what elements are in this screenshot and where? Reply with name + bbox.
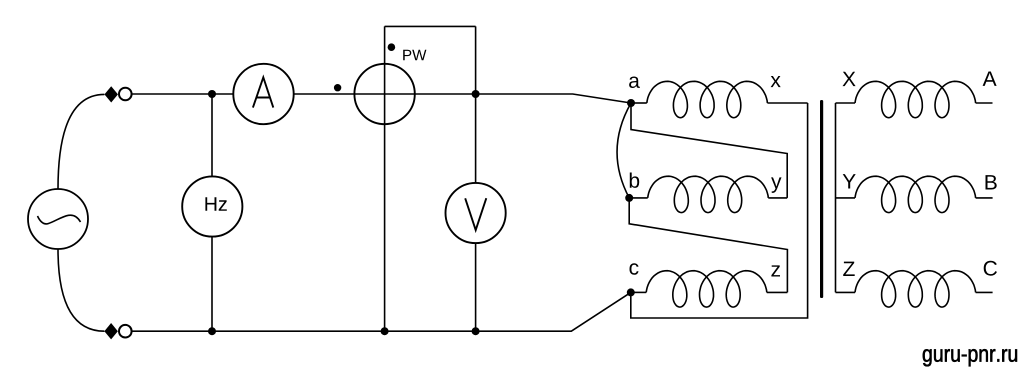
wattmeter PW circle (354, 64, 414, 124)
primary winding b-y stub (629, 197, 648, 199)
label b (630, 173, 639, 188)
label PW (403, 50, 426, 61)
label c (630, 263, 639, 275)
wire source bottom to terminal (58, 249, 104, 331)
wire link c to x (631, 103, 808, 318)
label watermark guru-pnr.ru (923, 349, 1017, 366)
junction dot bottom-Hz (208, 327, 216, 335)
label x (771, 76, 781, 87)
secondary winding X-A coil (855, 81, 976, 117)
label C (984, 261, 997, 276)
wire link b to z (629, 198, 787, 293)
secondary winding Z-C terminal line (976, 291, 993, 293)
terminal XT2 circle (119, 325, 132, 338)
wire link a to y (631, 103, 787, 198)
sine symbol inside source (38, 215, 81, 224)
primary winding a-x coil (647, 81, 768, 117)
junction dot bottom-voltmeter branch (472, 327, 480, 335)
node c (627, 288, 635, 296)
label Z (843, 262, 855, 276)
primary winding c-z stub (631, 291, 646, 293)
node b (625, 194, 633, 202)
transformer core (820, 100, 823, 298)
junction dot bottom-wattmeter branch (381, 327, 389, 335)
voltmeter PV1 (446, 183, 506, 243)
node a (627, 99, 635, 107)
ammeter PA1 (233, 64, 293, 124)
label z (771, 265, 780, 276)
terminal XT2 diamond (104, 323, 118, 339)
label Hz (205, 197, 226, 211)
primary winding b-y terminal line (768, 197, 787, 199)
label X (843, 72, 856, 86)
label a (629, 77, 640, 89)
primary winding c-z terminal line (767, 291, 788, 293)
ammeter letter A (253, 77, 273, 107)
label y (771, 177, 781, 193)
wattmeter label dot (388, 43, 396, 51)
label B (986, 175, 997, 189)
wattmeter polarity dot (334, 84, 341, 91)
secondary winding Y-B coil (855, 176, 976, 212)
wire top bus (132, 94, 631, 103)
primary winding a-x terminal line (767, 102, 807, 104)
wire Hz branch (211, 94, 213, 331)
primary winding c-z coil (646, 271, 767, 307)
frequency meter PF1 (182, 176, 242, 236)
secondary winding Z-C stub (836, 291, 856, 293)
secondary winding Y-B terminal line (976, 197, 993, 199)
wire secondary star bus (835, 103, 837, 292)
secondary winding Z-C coil (855, 271, 976, 307)
secondary winding X-A stub (836, 102, 856, 104)
voltmeter letter V (465, 198, 486, 230)
wire arc a to b (617, 103, 631, 198)
label Y (843, 174, 856, 188)
secondary winding X-A terminal line (976, 102, 993, 104)
wire wattmeter box top (385, 25, 476, 27)
junction dot top-Hz (208, 90, 216, 98)
terminal XT1 circle (119, 88, 132, 101)
AC source G1 (28, 189, 88, 249)
primary winding b-y coil (648, 176, 769, 212)
junction dot top-voltmeter branch (472, 90, 480, 98)
wire wattmeter vertical branch (384, 26, 386, 331)
wire voltmeter branch (475, 26, 477, 331)
primary winding a-x stub (631, 102, 647, 104)
wire source top to terminal (58, 94, 104, 189)
label A (983, 72, 997, 86)
terminal XT1 diamond (104, 86, 118, 102)
wire bottom bus (132, 292, 631, 331)
secondary winding Y-B stub (836, 197, 856, 199)
